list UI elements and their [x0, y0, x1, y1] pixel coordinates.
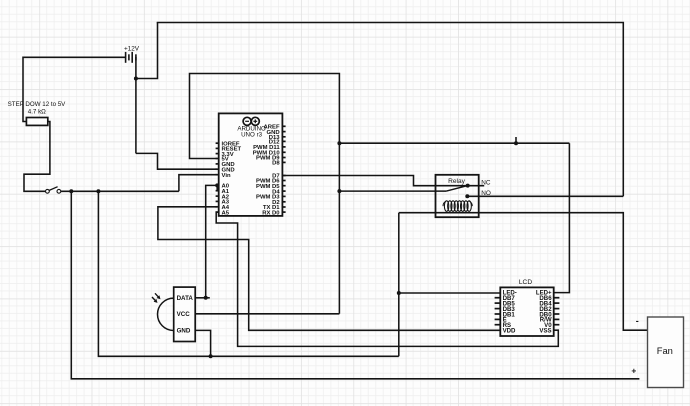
wire switch to Vin riser: [61, 190, 179, 192]
junction dot gnd bus branch: [96, 189, 100, 193]
Arduino right pin labels: [253, 125, 281, 217]
svg-text:VDD: VDD: [503, 327, 516, 334]
junction dot NC contact: [466, 184, 470, 188]
wire A5 to LCD VSS: [216, 212, 558, 346]
resistor R1 (STEP DOW 12 to 5V, 4.7 kOhm): [8, 101, 67, 125]
wire sensor VCC run: [195, 313, 339, 315]
svg-text:STEP DOW 12 to 5V: STEP DOW 12 to 5V: [8, 101, 67, 108]
wire relay arm feed: [339, 190, 446, 192]
junction dot NO contact: [465, 194, 469, 198]
op-amp U3 LCD: [500, 279, 553, 336]
wire DATA riser to A0/A1: [206, 185, 218, 297]
wire resistor right lead down-left to switch: [24, 122, 50, 192]
junction dot fan+ branch: [69, 189, 73, 193]
wire sensor GND drop: [195, 330, 210, 356]
stub tick on NC feed: [515, 137, 517, 143]
sensor U2 (light sensor DATA/VCC/GND): [152, 287, 195, 341]
relay switch arm: [446, 186, 467, 192]
Arduino right pin stubs: [282, 126, 285, 212]
LCD left pin labels: [503, 290, 517, 335]
svg-text:RX D0: RX D0: [262, 210, 280, 216]
junction dot sensor gnd on bus: [209, 354, 213, 358]
svg-text:Relay: Relay: [448, 178, 466, 185]
svg-text:GND: GND: [177, 328, 191, 335]
svg-text:NC: NC: [481, 180, 491, 187]
svg-text:Fan: Fan: [657, 345, 673, 356]
junction dot battery riser: [134, 77, 138, 81]
svg-text:Vin: Vin: [222, 173, 231, 179]
wire top rail to +12V drop on right: [157, 23, 624, 197]
wire left riser down to resistor: [23, 57, 26, 122]
relay coil: [443, 201, 472, 212]
Arduino left pin labels: [222, 141, 242, 216]
svg-text:D8: D8: [272, 161, 280, 167]
wire Arduino 5V loop to sensor VCC riser: [190, 74, 340, 314]
wire coil return riser: [398, 213, 400, 357]
svg-text:VSS: VSS: [539, 327, 551, 334]
op-amp U1 Arduino UNO r3: [219, 113, 283, 215]
wire coil pass-through to fan minus: [399, 213, 648, 331]
wire NC feed drop to LCD LED+: [554, 143, 570, 292]
fan M1: [648, 317, 684, 388]
wire D7 to relay NC contact: [282, 176, 484, 186]
svg-text:-: -: [636, 316, 639, 326]
battery +12V: [124, 45, 140, 63]
wire Vin riser to Arduino Vin: [179, 175, 217, 192]
svg-text:+12V: +12V: [124, 45, 140, 52]
wire branch up to top rail: [136, 23, 158, 79]
wire A0-A1 bridge: [217, 185, 219, 190]
Arduino left pin stubs: [216, 143, 219, 212]
wire battery feed from left riser: [23, 56, 125, 58]
wire fan plus run: [71, 191, 639, 378]
svg-text:UNO r3: UNO r3: [241, 132, 263, 139]
wire LED- to LCD: [399, 292, 501, 294]
wire battery down riser: [135, 57, 137, 153]
LCD left pin stubs: [495, 298, 501, 325]
svg-text:A5: A5: [222, 210, 230, 216]
svg-text:VCC: VCC: [177, 311, 191, 318]
junction dot LED- tap: [397, 291, 401, 295]
junction dot A0: [215, 183, 219, 187]
switch S1: [46, 187, 61, 194]
wire NC feed rail: [339, 142, 569, 144]
svg-text:+: +: [631, 366, 636, 376]
junction dot relay arm feed: [337, 189, 341, 193]
junction dot NC feed: [337, 141, 341, 145]
junction dot DATA: [204, 296, 208, 300]
wire A4 to LCD VDD: [158, 207, 500, 330]
wire NO to +12V drop: [467, 195, 623, 197]
svg-text:LCD: LCD: [519, 279, 532, 286]
LCD right pin labels: [536, 290, 552, 335]
relay K1: [436, 175, 479, 217]
wire sensor DATA stub: [195, 297, 210, 299]
svg-text:DATA: DATA: [177, 295, 194, 302]
LCD right pin stubs: [554, 298, 560, 325]
wire gnd bus drop and run: [98, 191, 398, 356]
junction dot stub tick: [514, 141, 518, 145]
wire battery to Arduino GND2: [136, 153, 217, 169]
svg-text:4.7 kΩ: 4.7 kΩ: [28, 109, 46, 116]
